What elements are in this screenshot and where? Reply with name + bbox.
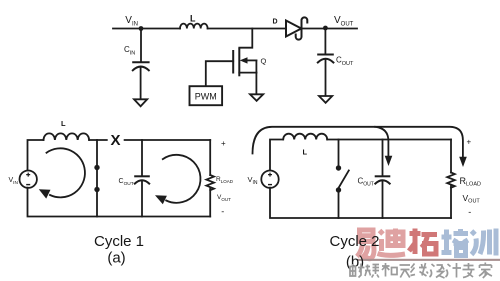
current flow arrowhead at COUT (385, 156, 393, 166)
svg-text:CIN: CIN (124, 45, 135, 57)
transistor Q1 channel bar (238, 49, 240, 76)
svg-text:L: L (190, 14, 196, 24)
svg-text:D: D (273, 19, 278, 26)
watermark red underline (358, 259, 500, 261)
capacitor COUT top plate (318, 54, 333, 56)
wire: source bottom to bottom rail (cycle 2) (270, 188, 451, 218)
wire: VOUT node down to COUT (324, 29, 326, 55)
wire: VIN node down to CIN (140, 29, 142, 62)
inductor L (cycle 2) (283, 134, 327, 140)
switch lever (open) (339, 171, 349, 189)
svg-text:Cycle 1: Cycle 1 (94, 233, 144, 250)
wire: drain stub from rail (239, 29, 252, 48)
switch contact dot upper (94, 165, 99, 170)
inductor L (cycle 1) (44, 133, 90, 140)
svg-text:VOUT: VOUT (334, 15, 354, 27)
transistor Q1 body arrowhead (240, 57, 248, 63)
transistor Q1 gate bar (232, 51, 234, 73)
capacitor COUT curved plate (cycle 1) (135, 180, 149, 183)
diode D schottky cathode bar (296, 17, 308, 39)
svg-text:COUT: COUT (358, 177, 374, 188)
svg-text:L: L (303, 148, 308, 157)
wire: right edge upper (cycle 1) (209, 140, 211, 175)
wire: source down to ground (255, 73, 257, 94)
svg-text:Q: Q (261, 57, 267, 66)
svg-text:X: X (111, 132, 121, 149)
svg-text:RLOAD: RLOAD (460, 176, 482, 188)
capacitor CIN curved plate (133, 67, 149, 71)
capacitor CIN top plate (133, 61, 148, 63)
svg-text:(a): (a) (107, 250, 125, 267)
svg-text:-: - (468, 207, 471, 217)
svg-text:+: + (467, 138, 472, 147)
wire: X gap to right edge of cycle1 (125, 139, 211, 141)
current loop arrow (cycle 1 left mesh) (47, 148, 85, 197)
svg-text:Cycle 2: Cycle 2 (329, 233, 379, 250)
wire: closed switch branch (cycle 1) (96, 140, 98, 217)
wire: inductor to right edge (cycle 2) (327, 139, 451, 141)
wire: inductor to diode anode (208, 28, 286, 30)
wire: source bottom to bottom-left corner (28, 188, 211, 217)
svg-text:PWM: PWM (195, 91, 217, 101)
wire: main top rail VIN to inductor (113, 28, 180, 30)
ground (under Q source) (250, 94, 263, 101)
switch contact dot upper (cycle 2) (336, 165, 341, 170)
wire: inductor to X gap (89, 139, 107, 141)
svg-text:COUT: COUT (119, 178, 134, 187)
svg-text:VIN: VIN (248, 175, 258, 186)
switch contact dot lower (94, 187, 99, 192)
svg-text:VIN: VIN (9, 177, 19, 186)
watermark slogan row (dark red CJK strokes) (350, 263, 492, 279)
slogan char 线 (411, 263, 429, 276)
watermark char 5 (blue) (472, 229, 497, 256)
voltage source V1 (cycle 1) (20, 171, 37, 188)
voltage source V2 (cycle 2) (261, 171, 278, 188)
PWM block U1 (190, 86, 223, 105)
wire: COUT branch upper (cycle 2) (382, 140, 384, 177)
svg-text:VOUT: VOUT (217, 194, 231, 202)
wire: right edge lower (cycle 2) (450, 185, 452, 218)
current flow branch arrow to COUT (375, 127, 388, 156)
slogan char 家 (479, 263, 492, 279)
wire: CIN to ground (140, 68, 142, 100)
slogan char 和 (382, 263, 397, 277)
watermark char 2 (salmon) (378, 229, 406, 256)
svg-text:COUT: COUT (336, 56, 354, 68)
svg-text:RLOAD: RLOAD (216, 176, 234, 184)
transistor Q1 source bar (239, 72, 256, 74)
watermark char 4 (blue) (442, 229, 469, 256)
wire: COUT to ground (325, 60, 327, 96)
slogan char 射 (350, 264, 365, 278)
node VIN junction dot (139, 26, 144, 31)
current flow arrow path (cycle 2) (253, 127, 463, 157)
slogan char 频 (365, 265, 379, 278)
inductor L (top circuit) (180, 24, 208, 29)
capacitor COUT curved plate (cycle 2) (375, 180, 389, 183)
diode D triangle (286, 21, 301, 37)
svg-text:+: + (221, 139, 226, 148)
wire: COUT branch upper (cycle 1) (141, 140, 143, 176)
wire: right edge lower (cycle 1) (209, 187, 211, 216)
wire: diode cathode to VOUT (302, 28, 358, 30)
svg-text:L: L (61, 119, 66, 128)
wire: COUT branch lower (cycle 2) (382, 182, 384, 219)
slogan char 天 (400, 265, 411, 278)
wire: cycle1 top-left corner to inductor (28, 140, 44, 171)
slogan char 设 (430, 264, 445, 278)
resistor RLOAD (cycle 1) (206, 175, 214, 190)
source V1 plus mark (26, 173, 30, 177)
slogan char 计 (446, 263, 462, 278)
resistor RLOAD (cycle 2) (447, 173, 455, 188)
wire: COUT branch lower (cycle 1) (141, 182, 143, 217)
wire: arrow node to source node (255, 60, 257, 72)
transistor Q1 body arrow wire (246, 59, 256, 61)
ground (under CIN) (134, 99, 147, 106)
wire: open switch branch lower (cycle 2) (338, 193, 340, 219)
source V2 minus mark (268, 184, 272, 186)
source V2 plus mark (268, 173, 272, 177)
capacitor COUT curved plate (318, 59, 334, 63)
svg-text:VIN: VIN (125, 15, 138, 27)
slogan char 专 (463, 263, 475, 278)
wire: open switch branch upper (cycle 2) (338, 140, 340, 166)
watermark char 1 (salmon) (357, 230, 374, 259)
wire: gate to PWM (206, 61, 233, 86)
capacitor COUT top plate (cycle 2) (376, 175, 390, 177)
capacitor COUT top plate (cycle 1) (135, 175, 149, 177)
wire: right edge upper (cycle 2) (450, 140, 452, 173)
switch contact dot lower (cycle 2) (336, 187, 341, 192)
svg-text:VOUT: VOUT (463, 193, 481, 205)
current flow arrowhead at RLOAD (459, 157, 467, 167)
wire: cycle2 top-left corner to inductor (270, 140, 283, 171)
source V1 minus mark (26, 184, 30, 186)
node VOUT junction dot (323, 26, 328, 31)
svg-text:-: - (221, 207, 224, 217)
watermark char 3 (red) (409, 229, 437, 255)
ground (under COUT) (319, 96, 332, 103)
current loop arrow (cycle 1 right mesh) (163, 155, 201, 203)
